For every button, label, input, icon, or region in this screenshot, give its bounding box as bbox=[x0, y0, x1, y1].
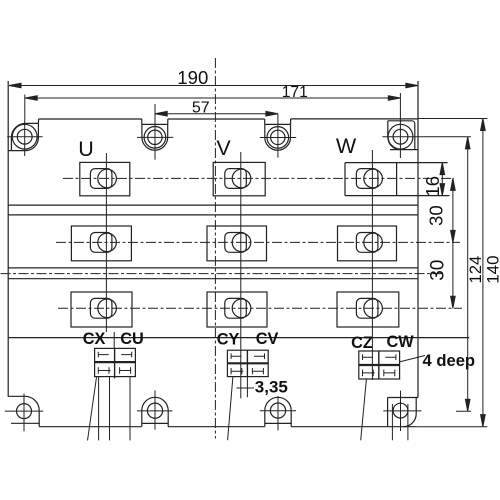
svg-text:124: 124 bbox=[466, 256, 485, 284]
svg-text:CW: CW bbox=[386, 333, 414, 351]
svg-text:30: 30 bbox=[426, 205, 447, 226]
gate terminal block Y (below V) bbox=[227, 350, 268, 376]
terminal W row1 screw bbox=[356, 169, 378, 189]
terminal U row3 screw bbox=[90, 298, 112, 318]
leader line for 3,35 bbox=[237, 387, 255, 389]
bottom-left corner lug bbox=[8, 396, 39, 423]
case horizontal line A bbox=[8, 204, 418, 206]
dimension 16 bbox=[440, 163, 445, 196]
leader line for 4 deep bbox=[399, 356, 425, 363]
svg-text:CU: CU bbox=[120, 330, 144, 348]
block X divider extension between CX CU bbox=[113, 332, 115, 348]
svg-text:57: 57 bbox=[192, 99, 210, 116]
row 2 terminal center chain line bbox=[56, 241, 460, 243]
row 3 terminal center chain line bbox=[58, 307, 462, 309]
dimension 30 lower bbox=[451, 296, 456, 308]
svg-text:CY: CY bbox=[217, 330, 240, 348]
terminal U row2 box bbox=[71, 226, 131, 261]
top-center-left mounting tab bbox=[142, 124, 168, 150]
terminal U row3 box bbox=[71, 292, 132, 327]
dimension 171 bbox=[25, 93, 401, 158]
module left edge bbox=[7, 81, 9, 397]
svg-text:4 deep: 4 deep bbox=[423, 351, 476, 370]
gate block X pins bbox=[88, 377, 131, 440]
dimension 124 bbox=[465, 137, 470, 411]
terminal V row1 screw bbox=[225, 169, 247, 189]
bottom edge steps bbox=[38, 423, 40, 426]
dimension 190 bbox=[9, 83, 418, 88]
terminal U row1 screw bbox=[90, 169, 112, 189]
case horizontal line E bbox=[8, 337, 469, 339]
top-center-right mounting tab bbox=[265, 124, 291, 150]
svg-text:V: V bbox=[216, 136, 231, 160]
svg-text:CX: CX bbox=[83, 330, 106, 348]
bottom-center-right mounting tab bbox=[265, 397, 291, 426]
terminal U row1 box bbox=[80, 162, 130, 195]
gate terminal block X (below U) bbox=[95, 348, 136, 378]
terminal V row2 box bbox=[207, 226, 267, 261]
svg-text:3,35: 3,35 bbox=[255, 378, 288, 397]
gate terminal block Z (below W) bbox=[359, 351, 400, 379]
V column center line bbox=[240, 152, 242, 398]
terminal U row2 screw bbox=[90, 233, 112, 253]
row 1 terminal center chain line bbox=[63, 177, 454, 179]
terminal W row3 screw bbox=[356, 298, 378, 318]
case horizontal line D bbox=[8, 278, 418, 280]
dimension 140 bbox=[416, 119, 487, 427]
svg-text:190: 190 bbox=[177, 67, 208, 88]
vertical center chain line bbox=[214, 58, 216, 439]
module top edge bbox=[39, 118, 419, 120]
svg-text:140: 140 bbox=[484, 255, 500, 283]
gate block Y pins bbox=[228, 377, 248, 441]
module bottom edge bbox=[39, 426, 416, 428]
bottom-right lug hole depth lines bbox=[392, 404, 408, 440]
dimension 30 upper bbox=[451, 178, 456, 308]
W column center line bbox=[371, 150, 373, 380]
case horizontal line C bbox=[8, 267, 418, 269]
U column center line bbox=[105, 153, 107, 332]
case horizontal line B bbox=[8, 214, 418, 216]
terminal W row2 screw bbox=[356, 233, 378, 253]
svg-text:CV: CV bbox=[256, 330, 279, 348]
terminal W row1 box with extended edges for 16-dim bbox=[345, 163, 449, 196]
svg-text:16: 16 bbox=[422, 176, 443, 197]
svg-text:U: U bbox=[78, 137, 94, 161]
top edge recess steps bbox=[39, 119, 291, 124]
terminal W row3 box bbox=[337, 292, 399, 327]
gate block Z pins bbox=[361, 379, 367, 440]
terminal V row1 box bbox=[213, 162, 265, 195]
svg-text:171: 171 bbox=[282, 84, 308, 101]
terminal V row2 screw bbox=[225, 233, 247, 253]
terminal V row3 box bbox=[207, 292, 267, 327]
dimension 57 bbox=[155, 104, 278, 160]
svg-text:CZ: CZ bbox=[351, 334, 373, 352]
bottom-center-left mounting tab bbox=[142, 397, 168, 426]
top-right corner lug bbox=[388, 121, 418, 150]
bottom-right corner lug bbox=[388, 398, 419, 427]
module right edge bbox=[417, 81, 419, 397]
terminal V row3 screw bbox=[225, 298, 247, 318]
svg-text:W: W bbox=[336, 134, 357, 158]
top-left corner lug bbox=[8, 123, 39, 150]
terminal W row2 box bbox=[338, 226, 397, 261]
svg-text:30: 30 bbox=[427, 260, 448, 281]
horizontal center chain line bbox=[1, 273, 444, 275]
